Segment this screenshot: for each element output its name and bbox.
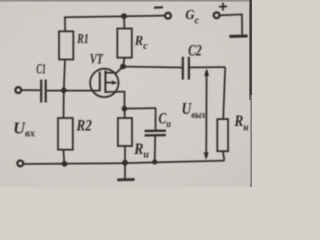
wire top rail [64, 16, 165, 18]
terminal plus [214, 12, 220, 18]
resistor R2 [58, 118, 73, 150]
right edge shadow dark [249, 0, 252, 100]
svg-text:R2: R2 [76, 118, 92, 135]
wire Rc top stub [123, 16, 125, 29]
right edge shadow light [250, 95, 252, 187]
wire R1 top stub [64, 17, 66, 32]
transistor VT gate bar [99, 72, 101, 92]
terminal minus [165, 13, 171, 19]
transistor VT channel [104, 71, 106, 94]
wire input to C1 [21, 89, 40, 91]
resistor R1 [59, 31, 73, 59]
wire R2 to bottom rail [62, 150, 65, 164]
minus sign [154, 6, 163, 8]
wire drain node to C2 [123, 66, 182, 69]
capacitor Cu [145, 131, 166, 136]
wire Rc to drain node [123, 58, 124, 67]
node R2 bottom dot [62, 161, 68, 167]
wire right corner down to Rn [223, 67, 225, 119]
wire plus to ground [219, 14, 242, 34]
top edge shadow [0, 0, 252, 2]
input terminal top [15, 87, 21, 93]
ground bottom bar [117, 178, 134, 181]
resistor Rc [117, 29, 132, 58]
transistor VT circle [90, 69, 118, 97]
resistor Ru [118, 118, 132, 146]
svg-text:C1: C1 [36, 62, 46, 78]
wire source lead [105, 92, 124, 109]
ground top-right bar [229, 35, 247, 38]
wire gate line [47, 90, 100, 92]
node Cu bottom dot [152, 160, 157, 165]
wire source node to Cu branch [124, 107, 156, 110]
wire Uout arrow line [205, 71, 207, 157]
plus sign [219, 3, 227, 11]
node Ru bottom dot [122, 160, 128, 166]
capacitor C1 [41, 80, 46, 103]
resistor Rn [217, 119, 228, 151]
wire Cu to bottom rail [154, 136, 157, 162]
node source dot [122, 106, 128, 112]
svg-text:VT: VT [90, 52, 104, 68]
wire Rn to bottom rail [223, 151, 224, 160]
capacitor C2 [183, 57, 189, 80]
paper background [0, 0, 252, 187]
wire Ru to bottom rail [124, 146, 126, 163]
Uout arrowhead up [204, 68, 209, 76]
node gate dot [61, 88, 67, 94]
wire Ru top stub [123, 109, 126, 118]
wire drain lead [105, 67, 123, 73]
node drain dot [120, 64, 126, 70]
substrate arrowhead [112, 81, 118, 85]
svg-text:R1: R1 [76, 32, 88, 47]
wire bottom rail [24, 161, 225, 164]
wire substrate arrow [105, 82, 113, 84]
input terminal bottom [17, 161, 23, 167]
wire gate node to R2 [63, 90, 65, 118]
wire Cu top stub [155, 108, 157, 130]
node Rc top dot [121, 13, 127, 19]
Uout arrowhead down [204, 152, 209, 160]
wire R1 to gate node [64, 60, 65, 91]
wire C2 to right corner [190, 66, 225, 68]
svg-text:C2: C2 [188, 43, 202, 60]
ground bottom stub [124, 162, 126, 178]
